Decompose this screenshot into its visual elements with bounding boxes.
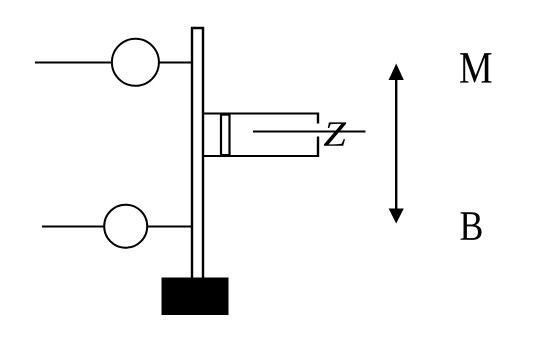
clamp boss circle (bottom) <box>104 205 147 248</box>
syringe barrel Z: bottom edge <box>203 155 319 157</box>
wire: top arm from circle to stand rod <box>159 62 193 64</box>
wire: bottom-left horizontal arm <box>42 226 104 228</box>
label M <box>460 53 491 82</box>
wire: bottom arm from circle to stand rod <box>148 226 193 228</box>
stand rod (vertical, two lines with top cap) <box>192 28 203 278</box>
arrowhead bottom <box>389 209 404 224</box>
syringe barrel Z: right edge upper segment (gap for plunger rod) <box>317 113 319 124</box>
clamp boss circle (top) <box>112 39 159 86</box>
double-headed arrow shaft <box>395 72 397 216</box>
wire: top-left horizontal arm <box>35 62 112 64</box>
syringe barrel Z: top edge <box>203 113 319 115</box>
label B <box>461 212 482 240</box>
piston seal (two vertical lines inside barrel) <box>221 115 230 156</box>
syringe barrel Z: right edge lower segment <box>317 137 319 158</box>
arrowhead top <box>389 64 404 81</box>
stand base (solid black) <box>162 278 229 316</box>
plunger rod line through barrel to label Z <box>253 131 366 133</box>
label Z <box>324 122 347 145</box>
